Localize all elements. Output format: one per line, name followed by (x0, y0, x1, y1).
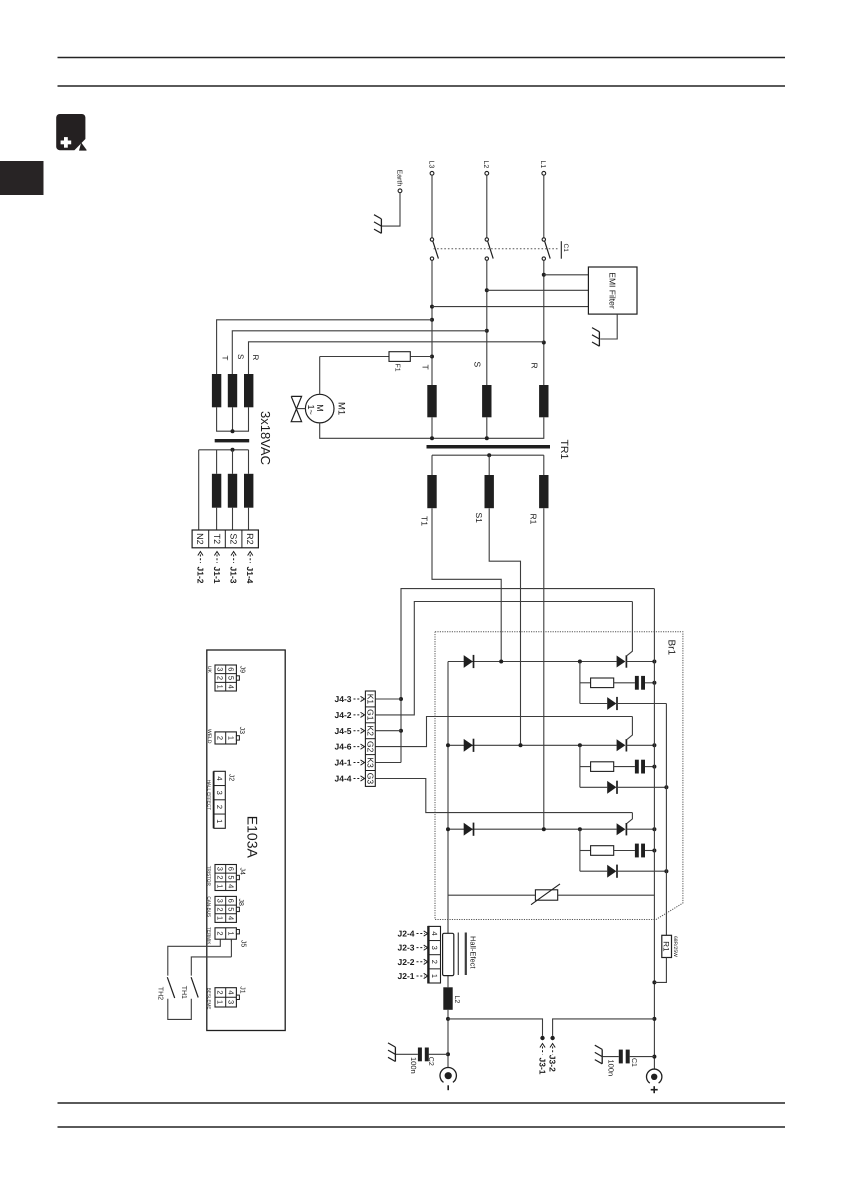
svg-text:L3: L3 (427, 161, 434, 169)
connector block K1 G1 K2 G2 K3 G3 (365, 691, 375, 786)
svg-text:J4: J4 (239, 868, 246, 876)
label E103A (245, 816, 261, 859)
label Hall-Efect (469, 936, 478, 969)
label J2-1 (397, 971, 427, 981)
connector J9 (206, 665, 246, 691)
svg-text:K1: K1 (366, 694, 376, 705)
ground (EMI filter) (592, 328, 599, 347)
wire (486, 260, 488, 385)
svg-text:J2-2: J2-2 (397, 957, 414, 967)
node (446, 1017, 450, 1056)
diode D3b (607, 865, 617, 878)
cathode bus wire K (401, 589, 654, 763)
svg-text:J3: J3 (238, 727, 245, 735)
wire (431, 175, 433, 238)
node J3-1 (540, 1036, 544, 1040)
wire (432, 306, 588, 308)
motor M1 (305, 394, 346, 423)
wire (382, 193, 400, 226)
svg-text:J1: J1 (239, 986, 246, 994)
label S (236, 354, 245, 359)
gate wire SCR3 (627, 813, 632, 824)
wire (543, 175, 545, 238)
svg-text:WELD: WELD (206, 729, 212, 744)
wire T1 feed (432, 508, 501, 661)
label R1 (529, 514, 539, 525)
svg-text:J1-2: J1-2 (195, 567, 205, 584)
svg-text:J4-3: J4-3 (334, 694, 351, 704)
wire (216, 450, 218, 474)
svg-text:J2-4: J2-4 (397, 929, 414, 939)
svg-text:2: 2 (215, 805, 224, 809)
wire (645, 850, 654, 852)
svg-text:J4-5: J4-5 (334, 726, 351, 736)
svg-text:5: 5 (226, 875, 235, 879)
terminal block N2 T2 S2 R2 (192, 530, 258, 548)
wire K3 (375, 762, 401, 764)
wire (488, 455, 490, 475)
svg-text:G3: G3 (366, 773, 376, 785)
svg-text:4: 4 (226, 916, 235, 920)
label L2 (453, 996, 460, 1004)
svg-text:J8: J8 (237, 899, 244, 907)
wire (191, 957, 231, 976)
wire S1 feed (489, 508, 520, 745)
wire (654, 958, 666, 983)
label TR1 (558, 440, 570, 460)
wire (448, 1019, 543, 1036)
wire (617, 786, 666, 788)
node (snubber tap 2) (578, 743, 582, 747)
wire (232, 450, 234, 474)
svg-text:L1: L1 (539, 161, 546, 169)
winding S1 (secondary) (485, 475, 494, 508)
label J3-1 (537, 1044, 547, 1075)
page footer rule 2 (58, 1126, 786, 1128)
switch TH2 (167, 977, 174, 998)
svg-text:5: 5 (226, 907, 235, 911)
svg-text:J2-1: J2-1 (397, 971, 414, 981)
resistor R1 (662, 935, 672, 957)
winding T (3x18VAC primary) (212, 374, 221, 407)
svg-text:J4-1: J4-1 (334, 758, 351, 768)
capacitor (snubber 1) (635, 676, 645, 690)
svg-text:1: 1 (226, 931, 235, 935)
wire (580, 766, 591, 768)
svg-text:R: R (530, 363, 540, 369)
svg-text:2: 2 (216, 875, 225, 879)
svg-text:2: 2 (216, 907, 225, 911)
wire (645, 766, 654, 768)
wire (580, 682, 591, 684)
bridge outline Br1 (dotted) (435, 632, 683, 920)
wire (199, 449, 249, 451)
capacitor C1 (619, 1050, 630, 1064)
wire (543, 260, 545, 385)
svg-text:J2: J2 (228, 774, 235, 782)
wire (phase 2 row) (448, 744, 617, 746)
capacitor (snubber 2) (635, 760, 645, 774)
gate wire SCR1 (627, 602, 632, 656)
wire (230, 939, 232, 941)
wire (603, 1056, 619, 1058)
diode D1a (464, 655, 474, 668)
svg-text:1: 1 (226, 736, 235, 740)
connector J4 (206, 865, 245, 891)
ground (C2) (388, 1043, 395, 1062)
node (446, 743, 450, 831)
wire (232, 407, 234, 431)
svg-text:CAN-BUS: CAN-BUS (206, 896, 211, 917)
svg-text:K3: K3 (366, 757, 376, 768)
transformer core 3x18VAC (215, 439, 250, 442)
svg-text:J1-3: J1-3 (229, 567, 239, 584)
svg-text:1: 1 (216, 884, 225, 888)
label 100n (606, 1060, 615, 1077)
svg-text:Br1: Br1 (665, 640, 676, 656)
svg-text:J4-4: J4-4 (334, 773, 351, 783)
thyristor SCR2 (617, 739, 627, 751)
wire (487, 289, 589, 291)
svg-text:2: 2 (216, 990, 225, 994)
node J3-2 (550, 1036, 554, 1040)
wire (579, 662, 581, 704)
node (430, 436, 489, 440)
svg-text:4: 4 (226, 685, 235, 689)
svg-text:TH1: TH1 (180, 986, 187, 999)
label T (220, 356, 229, 361)
svg-text:J3-2: J3-2 (548, 1055, 558, 1072)
node (430, 305, 434, 359)
svg-text:C1: C1 (630, 1058, 637, 1067)
node (487, 453, 491, 457)
breaker pole C1 (542, 238, 550, 260)
wire (431, 260, 433, 385)
svg-text:TH2: TH2 (156, 987, 163, 1000)
label S (473, 362, 483, 368)
wire (432, 417, 544, 438)
svg-text:S2: S2 (228, 533, 238, 544)
wire (614, 766, 635, 768)
thyristor SCR3 (617, 823, 627, 835)
wire (319, 357, 321, 395)
wire (626, 744, 654, 746)
svg-text:Hall-Efect: Hall-Efect (469, 936, 478, 969)
svg-text:J5: J5 (239, 940, 246, 948)
connector J5 (206, 927, 246, 947)
svg-text:J1-1: J1-1 (212, 567, 222, 584)
svg-text:2: 2 (216, 676, 225, 680)
label S1 (474, 513, 484, 524)
label J4-5 (334, 726, 364, 736)
node (664, 785, 668, 789)
label C2 (427, 1057, 434, 1066)
svg-text:R2: R2 (245, 533, 255, 545)
label TH1 (180, 986, 187, 999)
node (652, 660, 656, 664)
page header rule 2 (58, 85, 786, 87)
wire (320, 356, 389, 358)
svg-text:100n: 100n (409, 1057, 418, 1074)
svg-text:2: 2 (430, 960, 439, 964)
negative rail (left) (447, 662, 449, 921)
svg-text:5: 5 (226, 676, 235, 680)
wire K1 (375, 698, 401, 700)
svg-text:1~: 1~ (306, 405, 316, 415)
wire (626, 661, 654, 663)
svg-text:C1: C1 (562, 244, 569, 253)
svg-text:K2: K2 (366, 726, 376, 737)
resistor (snubber 2) (591, 762, 614, 772)
terminal Earth (396, 170, 404, 193)
label J4-6 (334, 742, 364, 752)
svg-text:M1: M1 (336, 402, 347, 415)
label J2-3 (397, 943, 427, 953)
svg-text:S: S (473, 362, 483, 368)
label Br1 (665, 640, 676, 656)
wire (630, 1056, 655, 1058)
svg-text:3x18VAC: 3x18VAC (258, 411, 273, 465)
hall-effect lines (458, 933, 466, 976)
node (485, 288, 489, 333)
hall-effect sensor (443, 933, 454, 975)
svg-text:G2: G2 (366, 741, 376, 753)
svg-text:3: 3 (226, 1000, 235, 1004)
wire (645, 682, 654, 684)
svg-text:R1: R1 (529, 514, 539, 525)
svg-text:2: 2 (216, 736, 225, 740)
svg-text:L2: L2 (482, 161, 489, 169)
connector J3 (206, 727, 245, 744)
svg-text:J2-3: J2-3 (397, 943, 414, 953)
label J4-3 (334, 694, 364, 704)
wire (579, 745, 581, 787)
fuse F1 (389, 352, 410, 372)
terminal L2 (482, 161, 489, 176)
terminal L3 (427, 161, 434, 176)
connector ref J1-3 (229, 552, 239, 584)
svg-text:T: T (420, 365, 430, 370)
varistor (531, 884, 560, 905)
svg-text:EMI Filter: EMI Filter (608, 272, 618, 309)
svg-text:J1-4: J1-4 (245, 567, 255, 584)
label J4-4 (334, 773, 364, 783)
wire (232, 508, 234, 530)
breaker linkage / label C1 (434, 241, 569, 259)
winding S (TR1 primary) (482, 385, 491, 417)
left tab marker (0, 161, 44, 195)
wire (626, 828, 654, 830)
node (AC in 1) (499, 660, 503, 664)
svg-text:BESLEME: BESLEME (206, 988, 211, 1010)
breaker pole C1 (485, 238, 493, 260)
svg-text:E103A: E103A (245, 816, 261, 859)
winding S (3x18VAC primary) (228, 374, 237, 407)
wire (248, 508, 250, 530)
wire (410, 356, 432, 358)
svg-text:1: 1 (430, 974, 439, 978)
wire (phase 3 row) (448, 828, 617, 830)
svg-text:2: 2 (216, 931, 225, 935)
svg-text:TERMIK: TERMIK (206, 927, 211, 945)
wire (600, 314, 617, 339)
svg-text:T2: T2 (212, 534, 222, 545)
wire (486, 417, 488, 438)
node (AC in 3) (542, 827, 546, 831)
capacitor (snubber 3) (635, 844, 645, 858)
svg-text:J9: J9 (239, 666, 246, 674)
connector ref J1-2 (195, 552, 205, 584)
label C1 (630, 1058, 637, 1067)
svg-text:100n: 100n (606, 1060, 615, 1077)
wire (448, 894, 654, 896)
svg-text:T1: T1 (420, 516, 430, 526)
wire (431, 455, 433, 475)
node (231, 448, 235, 452)
wire G3 (375, 779, 632, 813)
label 100n (409, 1057, 418, 1074)
svg-text:3: 3 (216, 867, 225, 871)
connector J2 (206, 771, 234, 828)
wire (432, 454, 544, 456)
resistor (snubber 1) (591, 678, 614, 688)
wire (543, 455, 545, 475)
node (652, 849, 656, 853)
label T (420, 365, 430, 370)
svg-text:68R/25W: 68R/25W (672, 936, 678, 957)
wire (230, 939, 232, 945)
svg-text:TR1: TR1 (558, 440, 570, 460)
wire (614, 850, 635, 852)
connector J8 (206, 896, 244, 922)
wire (230, 945, 232, 957)
label R (251, 355, 260, 361)
wire (248, 450, 250, 474)
label J3-2 (548, 1044, 558, 1073)
output terminal + (plus) (647, 1069, 662, 1093)
node (652, 743, 656, 747)
svg-text:Earth: Earth (396, 170, 404, 187)
wire (395, 1053, 418, 1055)
wire (617, 870, 666, 872)
wire (168, 999, 192, 1020)
svg-text:1: 1 (216, 685, 225, 689)
svg-text:3: 3 (215, 791, 224, 795)
wire (429, 1053, 448, 1055)
svg-text:UK: UK (206, 666, 212, 674)
wire K2 (375, 730, 401, 732)
node (652, 980, 656, 1058)
board E103A outline (207, 650, 285, 1031)
wire (617, 703, 666, 705)
label J2-2 (397, 957, 427, 967)
node (231, 429, 235, 433)
winding R2 (secondary) (244, 474, 253, 508)
wire (431, 417, 433, 438)
label J2-4 (397, 929, 427, 939)
svg-text:1: 1 (216, 1000, 225, 1004)
connector block J2 (hall) (428, 926, 440, 984)
positive rail (right) (653, 589, 655, 1070)
svg-text:1: 1 (215, 819, 224, 823)
ground (earth input) (374, 215, 381, 234)
page icon (add-page) (56, 114, 86, 151)
transformer core TR1 (427, 445, 551, 449)
EMI filter box (588, 267, 637, 314)
wire (580, 703, 607, 705)
label J4-2 (334, 710, 364, 720)
svg-text:J4-2: J4-2 (334, 710, 351, 720)
svg-text:TRISTOR: TRISTOR (206, 866, 211, 887)
connector J1 (206, 986, 245, 1009)
node (664, 869, 668, 873)
page header rule 1 (58, 57, 786, 59)
wire (320, 423, 432, 438)
wire (198, 450, 200, 530)
node (542, 273, 546, 345)
winding R1 (secondary) (539, 475, 548, 508)
wire (249, 342, 544, 374)
label T1 (420, 516, 430, 526)
svg-text:6: 6 (226, 667, 235, 671)
diode D1b (607, 697, 617, 710)
node (snubber tap 1) (578, 660, 582, 664)
wire (217, 320, 432, 374)
winding T2 (secondary) (212, 474, 221, 508)
node (652, 681, 656, 685)
node (652, 765, 656, 769)
svg-text:C2: C2 (427, 1057, 434, 1066)
svg-text:R1: R1 (662, 941, 671, 952)
label 3x18VAC (258, 411, 273, 465)
gate wire SCR2 (627, 717, 632, 740)
diode D2a (464, 739, 474, 752)
svg-text:T: T (220, 356, 229, 361)
svg-text:HALL EFFECT: HALL EFFECT (206, 780, 211, 811)
svg-text:6: 6 (226, 867, 235, 871)
svg-text:N2: N2 (195, 533, 205, 545)
svg-text:1: 1 (216, 916, 225, 920)
wire R1 feed (543, 508, 545, 829)
output terminal - (minus) (440, 1067, 456, 1090)
svg-text:G1: G1 (366, 709, 376, 721)
diode D3a (464, 823, 474, 836)
winding R (TR1 primary) (539, 385, 548, 417)
ground (C1) (595, 1045, 602, 1064)
page footer rule 1 (58, 1102, 786, 1104)
wire (168, 939, 221, 975)
svg-text:R: R (251, 355, 260, 361)
svg-text:4: 4 (430, 931, 439, 935)
wire (544, 274, 589, 276)
svg-text:S: S (236, 354, 245, 359)
wire (216, 508, 218, 530)
wire (614, 682, 635, 684)
svg-text:3: 3 (216, 667, 225, 671)
capacitor C2 (418, 1048, 429, 1062)
svg-text:3: 3 (216, 899, 225, 903)
svg-text:L2: L2 (453, 996, 460, 1004)
label TH2 (156, 987, 163, 1000)
label J4-1 (334, 758, 364, 768)
svg-text:6: 6 (226, 899, 235, 903)
wire (232, 331, 486, 374)
label R (530, 363, 540, 369)
inductor L2 (443, 987, 452, 1010)
svg-text:4: 4 (215, 776, 224, 780)
node (AC in 2) (519, 743, 523, 747)
wire (579, 829, 581, 871)
